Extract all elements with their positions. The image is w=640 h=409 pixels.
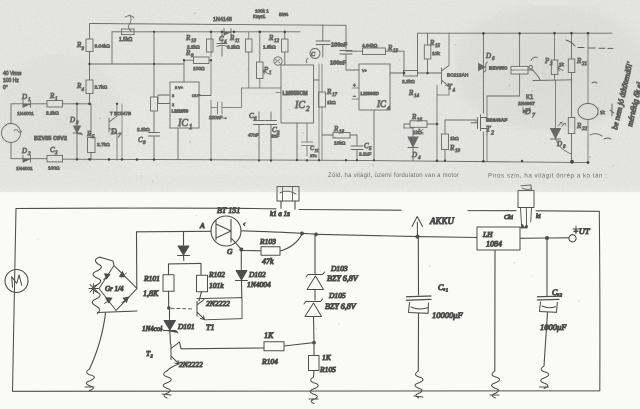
- svg-text:k1 a 1z: k1 a 1z: [270, 210, 290, 218]
- svg-text:2N2222: 2N2222: [206, 299, 230, 308]
- zener D3: [73, 118, 83, 145]
- svg-text:R102: R102: [208, 270, 225, 279]
- svg-text:D105: D105: [328, 291, 346, 300]
- svg-text:1000μF: 1000μF: [540, 322, 567, 332]
- resistor R102: [197, 275, 208, 292]
- svg-text:R105: R105: [319, 365, 336, 374]
- resistor R12: [282, 39, 289, 52]
- LED D8: [551, 129, 561, 140]
- margin dashes: [590, 82, 611, 139]
- svg-text:1,8K: 1,8K: [143, 289, 159, 298]
- output wire: [520, 237, 569, 240]
- ground under coil: [85, 369, 94, 391]
- wire x319: [318, 64, 320, 160]
- cap C5: [351, 146, 363, 160]
- resistor R2: [47, 155, 63, 162]
- cap C11 bottom right of IC2: [302, 123, 314, 156]
- ground under R105: [309, 377, 318, 404]
- resistor R14: [404, 71, 418, 77]
- diode D1: [23, 100, 47, 107]
- transistor T2: [471, 115, 487, 135]
- schematic border: [13, 208, 600, 391]
- resistor R6 1.5k on rail2: [122, 29, 135, 35]
- resistor R5: [88, 138, 96, 153]
- bridge diode marks: [120, 272, 127, 278]
- node under diode: [169, 262, 202, 265]
- cap 220nF: [211, 88, 249, 114]
- wire: x89 between rail3 and R4, R4 to row: [89, 64, 91, 104]
- svg-text:Cki: Cki: [504, 214, 513, 221]
- svg-text:T1: T1: [206, 323, 214, 332]
- wire: rail1 right corner down: [345, 25, 347, 49]
- zener D104: [304, 299, 323, 317]
- regulator LH1084: [477, 227, 520, 250]
- R103 row: [241, 250, 261, 252]
- svg-text:LH: LH: [482, 230, 493, 239]
- resistor R1: [47, 101, 63, 108]
- pot P2: [551, 60, 558, 75]
- collector to R104 wire: [180, 342, 265, 349]
- cap C3: [266, 112, 277, 161]
- resistor R18: [333, 133, 350, 139]
- motor M: [5, 270, 28, 293]
- meter/lamp: [578, 104, 598, 120]
- IC1 bottom pin wire: [177, 128, 179, 160]
- resistor R101: [163, 275, 174, 292]
- resistor R3: [86, 39, 93, 52]
- svg-text:1084: 1084: [486, 240, 502, 249]
- cap 100nF second: [340, 51, 359, 71]
- bottom rail of top schematic: [63, 159, 589, 162]
- dot: [167, 306, 170, 309]
- cap C12 100nF top right: [316, 25, 330, 57]
- resistor R21: [568, 59, 575, 73]
- svg-text:Cₑ₂: Cₑ₂: [552, 288, 562, 297]
- flyback diode D7: [523, 107, 530, 113]
- pot P1: [257, 62, 264, 79]
- relay K1 coil: [511, 66, 528, 74]
- switch S1 squiggle on rail 1: [125, 15, 134, 31]
- node: rail 3 y64: [90, 63, 185, 65]
- rail right section: [418, 32, 613, 34]
- transistor T1 2N2222: [197, 300, 205, 320]
- IC1 LM2850: [170, 82, 199, 128]
- transistor T2 2N2222 lower: [171, 342, 180, 364]
- LED D4: [408, 128, 418, 161]
- emitter to ground: [167, 364, 179, 371]
- zener D101: [169, 308, 171, 320]
- svg-text:ki: ki: [536, 213, 541, 220]
- main wire cathode: [241, 231, 477, 238]
- scribble circle near 100n: [310, 49, 320, 59]
- relay contact K1a: [277, 187, 299, 202]
- resistor R104: [264, 342, 284, 351]
- ground under T2: [162, 371, 171, 398]
- svg-text:10000μF: 10000μF: [432, 310, 464, 320]
- bridge rectifier Gr: [99, 266, 137, 311]
- svg-text:R101: R101: [143, 274, 160, 283]
- resistor R105: [309, 356, 320, 371]
- wire coil top to bridge: [100, 257, 114, 265]
- wire x211 vertical: [210, 32, 212, 160]
- svg-text:BZY 6,8V: BZY 6,8V: [327, 274, 359, 283]
- node: upper rail 1: [91, 24, 347, 26]
- emitter wire to bracket: [197, 298, 242, 320]
- margin tick: [610, 104, 614, 116]
- bridge out up: [136, 232, 138, 289]
- wire: rail2 left end down: [111, 32, 113, 64]
- svg-text:R104: R104: [261, 357, 278, 366]
- node: rail 2: [112, 31, 300, 33]
- main wire anode: [137, 230, 211, 233]
- star junction left: [89, 284, 99, 294]
- resistor R13: [363, 48, 386, 55]
- ground under Ce2: [540, 366, 549, 389]
- wire x77 vertical: [76, 104, 78, 160]
- dots on main wire: [300, 232, 304, 236]
- SCR BT151: [211, 216, 241, 246]
- junction dots top: [76, 31, 590, 164]
- AKKU arrow: [412, 217, 423, 237]
- resistor R10: [207, 39, 214, 52]
- svg-text:D103: D103: [330, 264, 348, 273]
- svg-text:47k: 47k: [262, 257, 274, 266]
- gate node and R103: [239, 248, 243, 252]
- resistor R15: [424, 45, 431, 59]
- diode D9 1N4148 on rail2: [224, 29, 231, 36]
- svg-text:b.e: b.e: [521, 224, 528, 230]
- diode D2: [23, 155, 47, 162]
- AC source V1: [2, 124, 21, 143]
- svg-text:101k: 101k: [209, 281, 224, 290]
- svg-text:1K: 1K: [322, 353, 332, 362]
- cap C6: [254, 112, 265, 160]
- IC2 LM555: [281, 65, 314, 123]
- dashed base link: [171, 307, 193, 310]
- field coil: [92, 257, 101, 314]
- zener D6: [479, 62, 488, 72]
- diode D102: [236, 271, 248, 281]
- cap Ce2: [546, 238, 548, 296]
- resistor R19: [442, 134, 449, 150]
- ground under Ce1: [414, 371, 423, 398]
- svg-text:D101: D101: [177, 322, 195, 331]
- resistor R11: [246, 39, 253, 52]
- svg-text:R103: R103: [259, 237, 276, 246]
- svg-text:1N4col: 1N4col: [142, 325, 162, 333]
- svg-text:G: G: [227, 247, 233, 256]
- TO220 package above: [518, 191, 534, 208]
- wire x122: [121, 104, 123, 160]
- regulator ground: [494, 250, 496, 371]
- IC3 LM393: [359, 64, 390, 110]
- wire y80: [533, 79, 572, 82]
- zener chain stem: [314, 236, 316, 271]
- small transistor scribble T3: [274, 57, 282, 65]
- svg-text:BZY 6,8V: BZY 6,8V: [325, 302, 357, 311]
- wire coil to ground: [90, 313, 106, 369]
- relay contact arc: [529, 66, 532, 69]
- svg-text:D102: D102: [248, 270, 266, 279]
- resistor R16: [410, 121, 427, 128]
- zener D103: [306, 272, 325, 290]
- svg-text:A: A: [199, 221, 205, 230]
- resistor R8 and cap C8: [151, 97, 158, 111]
- resistor R9: [194, 57, 210, 64]
- wire coil bottom: [98, 311, 138, 313]
- svg-text:2N2222: 2N2222: [179, 360, 203, 369]
- svg-text:BT 151: BT 151: [217, 206, 240, 215]
- svg-text:1K: 1K: [264, 331, 274, 340]
- transistor T4 BC212: [439, 66, 449, 87]
- wire: left column x89: [89, 24, 91, 65]
- svg-text:T₂: T₂: [146, 349, 153, 358]
- resistor R17 col: [319, 92, 326, 107]
- svg-text:1N4004: 1N4004: [247, 280, 271, 289]
- resistor R22: [568, 118, 575, 134]
- resistor R4: [86, 80, 93, 94]
- svg-text:Cₑ₁: Cₑ₁: [438, 283, 448, 292]
- cap C4: [217, 32, 227, 56]
- gray scan wash top right: [0, 0, 1, 1]
- svg-text:AKKU: AKKU: [429, 216, 455, 226]
- branch diode D100: [183, 232, 185, 246]
- cap Ce1: [417, 237, 419, 295]
- svg-text:Gr 1/4: Gr 1/4: [105, 285, 124, 293]
- dashed annotation arrow: [566, 40, 613, 48]
